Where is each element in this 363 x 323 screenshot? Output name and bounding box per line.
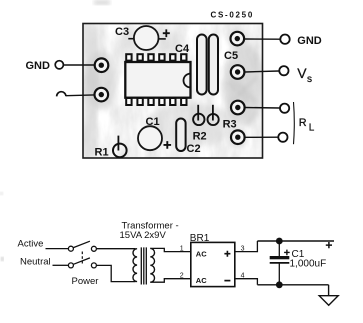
wire pad4 to RL bottom terminal (246, 136, 278, 138)
transformer T1 secondary winding (150, 248, 154, 282)
svg-text:GND: GND (297, 35, 322, 47)
transformer T1 primary winding (133, 249, 137, 282)
svg-text:L: L (309, 123, 315, 134)
notch (184, 74, 191, 88)
svg-text:s: s (307, 74, 312, 85)
op-amp IC U1 (125, 54, 190, 105)
pad right 4 (227, 127, 248, 148)
wire rail to C1 (278, 241, 280, 256)
svg-text:AC: AC (196, 276, 207, 285)
RL label (299, 117, 315, 133)
capacitor C2 (176, 119, 200, 156)
wire GND left to pad (63, 64, 94, 66)
pin 2 (137, 54, 142, 60)
wire pad1 to GND terminal (245, 38, 280, 40)
scan smudge top-left (94, 0, 110, 5)
svg-text:Neutral: Neutral (20, 257, 51, 268)
switch S1b pole (68, 263, 73, 268)
switch S1b throw (91, 263, 96, 268)
wire Active to switch (46, 248, 69, 250)
svg-text:1,000uF: 1,000uF (290, 258, 327, 269)
+ polarity mark (326, 242, 332, 248)
switch S1a blade (73, 241, 90, 247)
svg-text:C4: C4 (175, 43, 190, 55)
pin 3 (148, 54, 153, 60)
pin 8 (137, 98, 142, 105)
switch S1b blade (73, 258, 90, 264)
wire left 2 to pad (66, 94, 94, 97)
svg-text:R1: R1 (95, 146, 109, 158)
svg-text:R3: R3 (223, 118, 237, 130)
capacitor C1 electrolytic (270, 249, 327, 270)
junction node top (276, 238, 283, 245)
svg-text:15VA 2x9V: 15VA 2x9V (120, 230, 167, 241)
PCB board outline (83, 24, 264, 159)
wire C1 to - rail (278, 263, 280, 285)
svg-text:AC: AC (196, 249, 207, 258)
switch gang dashed link (81, 252, 83, 264)
pin 6 (181, 54, 186, 60)
resistor R3 (208, 105, 219, 125)
wire rail to ground (328, 285, 330, 296)
svg-text:R: R (299, 117, 307, 129)
wire secondary top to BR1 pin 1 (150, 248, 191, 251)
svg-text:Power: Power (72, 276, 99, 287)
pad left 1 (95, 58, 109, 72)
terminal circle GND left (55, 61, 63, 69)
switch S1a pole (68, 246, 73, 251)
svg-text:2: 2 (180, 272, 184, 279)
svg-text:1: 1 (180, 245, 184, 252)
terminal arc left 2 (57, 92, 66, 97)
pin 12 (181, 98, 186, 105)
wire Neutral to switch (53, 264, 69, 266)
pad right 1 (227, 28, 248, 49)
Vs label (297, 65, 312, 85)
svg-text:C2: C2 (187, 143, 201, 155)
- output rail (257, 284, 328, 286)
jumper oval B (209, 35, 218, 95)
pin 10 (159, 98, 164, 105)
left margin speck (1, 192, 4, 195)
wire pad2 to Vs terminal (245, 71, 279, 72)
pad right 3 (227, 97, 248, 118)
capacitor C3 (115, 26, 170, 50)
terminal circle GND right (280, 35, 289, 44)
pin 5 (170, 54, 175, 60)
wire switch to transformer primary bottom (97, 265, 136, 281)
resistor R1 (95, 136, 127, 159)
pin 1 (126, 54, 131, 60)
terminal circle RL bottom (278, 133, 287, 142)
terminal circle Vs (279, 66, 288, 75)
jumper oval A (197, 35, 207, 95)
switch S1a throw (91, 246, 96, 251)
pin 9 (148, 98, 153, 105)
wire BR1 pin 3 to + rail (235, 241, 258, 252)
bridge rectifier BR1 (190, 233, 235, 287)
pin 7 (126, 98, 131, 105)
junction node bottom (276, 281, 283, 288)
svg-text:C5: C5 (224, 50, 238, 62)
pin 4 (159, 54, 164, 60)
capacitor C1 (138, 116, 171, 150)
svg-text:3: 3 (241, 245, 245, 252)
+ output rail (257, 240, 334, 242)
wire switch to transformer primary top (97, 248, 136, 250)
svg-text:GND: GND (26, 60, 51, 72)
svg-text:4: 4 (241, 272, 245, 279)
ground (319, 296, 338, 306)
left margin artifact (1, 257, 4, 261)
pin 11 (170, 98, 175, 105)
svg-text:C3: C3 (115, 26, 129, 38)
terminal circle RL top (280, 104, 289, 113)
RL bracket (293, 102, 296, 144)
wire pad3 to RL top terminal (246, 107, 280, 110)
pad left 2 (95, 88, 109, 102)
svg-text:Active: Active (18, 238, 44, 249)
svg-text:R2: R2 (193, 130, 207, 142)
wire BR1 pin 4 to - rail (235, 279, 258, 285)
transformer core (141, 247, 146, 284)
wire secondary bottom to BR1 pin 2 (150, 279, 191, 283)
svg-text:V: V (297, 65, 307, 81)
pad right 2 (227, 62, 248, 83)
resistor R2 (193, 105, 204, 125)
svg-text:CS-0250: CS-0250 (211, 11, 254, 20)
